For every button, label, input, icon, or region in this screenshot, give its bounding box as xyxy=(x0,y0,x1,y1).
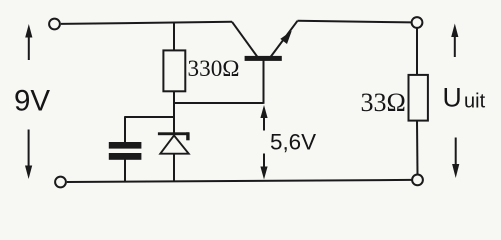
transistor Q1 base lead vertical xyxy=(263,59,265,104)
source voltage arrow down (9V) xyxy=(25,130,32,180)
wire resistor R2 bottom lead xyxy=(416,121,419,175)
svg-text:uit: uit xyxy=(464,91,486,113)
transistor Q1 collector lead xyxy=(232,22,258,57)
output voltage arrow down (Uuit) xyxy=(452,138,459,179)
label U uit xyxy=(443,82,486,112)
wire capacitor top lead xyxy=(124,116,126,143)
svg-text:9V: 9V xyxy=(14,84,50,117)
wire resistor R1 bottom lead to zener node xyxy=(173,91,175,135)
output voltage arrow up (Uuit) xyxy=(451,24,458,58)
capacitor C1 bottom plate xyxy=(109,153,142,160)
svg-text:33Ω: 33Ω xyxy=(361,88,406,117)
terminal bottom-left xyxy=(55,177,66,188)
terminal top-right xyxy=(412,17,423,28)
resistor R2 33 ohm body xyxy=(409,75,428,121)
wire top rail from emitter to right terminal xyxy=(298,21,412,23)
wire capacitor bottom lead xyxy=(124,160,126,182)
wire base node horizontal to transistor base xyxy=(173,102,263,104)
svg-text:U: U xyxy=(443,82,462,112)
capacitor C1 top plate xyxy=(109,142,142,149)
terminal top-left xyxy=(49,19,60,30)
transistor Q1 base bar xyxy=(245,56,282,61)
zener diode D1 cathode bar xyxy=(158,132,189,135)
wire zener anode bottom lead xyxy=(173,154,175,181)
source voltage arrow up (9V) xyxy=(25,24,32,60)
transistor Q1 emitter lead xyxy=(271,21,298,57)
zener diode D1 triangle xyxy=(160,135,188,153)
wire top rail from left terminal to transistor collector xyxy=(61,22,232,24)
wire resistor R1 top lead xyxy=(173,23,175,50)
zener voltage arrow up (5,6V) xyxy=(260,105,267,131)
transistor Q1 emitter arrowhead xyxy=(280,31,292,44)
zener diode D1 cathode right hook xyxy=(186,132,189,140)
wire resistor R2 top lead xyxy=(416,28,418,75)
svg-text:330Ω: 330Ω xyxy=(188,56,240,82)
zener voltage arrow down (5,6V) xyxy=(260,154,267,180)
wire bottom rail xyxy=(67,180,412,182)
wire capacitor branch horizontal xyxy=(125,116,174,118)
terminal bottom-right xyxy=(412,175,423,186)
svg-text:5,6V: 5,6V xyxy=(270,130,316,155)
resistor R1 330 ohm body xyxy=(163,50,185,91)
